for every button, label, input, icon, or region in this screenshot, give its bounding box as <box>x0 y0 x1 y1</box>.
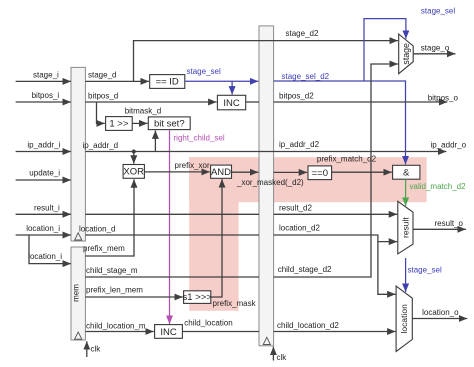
comparator ==ID <box>150 75 185 89</box>
wire prefix_xor <box>144 161 210 172</box>
incrementer INC child <box>155 325 183 339</box>
mux result <box>398 201 413 254</box>
svg-text:prefix_mem: prefix_mem <box>83 244 125 253</box>
wire location_o <box>412 308 467 319</box>
wire stage_o <box>413 44 455 54</box>
svg-text:stage_sel: stage_sel <box>421 7 455 16</box>
svg-text:result: result <box>400 217 410 238</box>
wire ip_addr_d down to XOR <box>133 152 135 164</box>
mux location <box>396 286 412 351</box>
svg-text:child_location: child_location <box>184 318 232 327</box>
svg-text:stage_sel_d2: stage_sel_d2 <box>282 72 330 81</box>
svg-text:clk: clk <box>91 345 102 354</box>
wire prefix_mask <box>211 179 257 308</box>
wire bitpos_i <box>16 91 71 102</box>
wire prefix_mem <box>83 179 134 256</box>
svg-text:location_d: location_d <box>79 225 115 234</box>
svg-text:child_location_m: child_location_m <box>86 322 146 331</box>
wire stage_sel_d2 (blue) <box>274 72 406 164</box>
wire location_i <box>16 224 71 235</box>
wire ip_addr_i <box>16 141 71 152</box>
svg-text:ip_addr_i: ip_addr_i <box>27 141 60 150</box>
svg-text:location_i: location_i <box>26 224 60 233</box>
svg-text:child_stage_d2: child_stage_d2 <box>278 265 332 274</box>
wire bitpos_d <box>85 91 216 102</box>
wire ip_addr_d <box>83 140 467 153</box>
svg-text:XOR: XOR <box>123 167 144 178</box>
svg-text:bitpos_i: bitpos_i <box>32 91 60 100</box>
svg-text:bitpos_d2: bitpos_d2 <box>279 92 314 101</box>
svg-text:prefix_match_d2: prefix_match_d2 <box>317 155 377 164</box>
svg-text:right_child_sel: right_child_sel <box>174 134 225 143</box>
svg-text:valid_match_d2: valid_match_d2 <box>410 182 467 191</box>
svg-text:&: & <box>403 168 410 179</box>
wire stage_d to d2 top route <box>134 29 399 81</box>
wire update_i <box>16 169 71 180</box>
svg-text:update_i: update_i <box>29 169 60 178</box>
wire prefix_match_d2 <box>317 155 392 173</box>
svg-text:s1 >>>: s1 >>> <box>183 292 213 303</box>
wire child_stage_m / child_stage_d2 <box>85 64 398 277</box>
wire result_o <box>413 219 466 230</box>
wire stage_sel (blue) <box>185 67 258 81</box>
svg-text:stage_d2: stage_d2 <box>286 29 319 38</box>
svg-text:mem: mem <box>72 284 81 302</box>
svg-text:stage_o: stage_o <box>421 44 450 53</box>
svg-text:stage_d: stage_d <box>88 71 116 80</box>
svg-text:AND: AND <box>211 167 231 178</box>
wire bitmask_d <box>125 106 161 123</box>
wire result_i <box>16 203 71 214</box>
svg-text:bitmask_d: bitmask_d <box>125 106 161 115</box>
svg-text:prefix_mask: prefix_mask <box>213 299 257 308</box>
svg-text:ip_addr_d: ip_addr_d <box>83 141 119 150</box>
svg-text:stage: stage <box>401 43 411 65</box>
svg-text:INC: INC <box>160 327 177 338</box>
svg-text:location_d2: location_d2 <box>279 223 320 232</box>
svg-text:bitpos_d: bitpos_d <box>88 91 118 100</box>
svg-text:_xor_masked(_d2): _xor_masked(_d2) <box>236 178 304 187</box>
comparator ==0 <box>308 166 332 180</box>
svg-text:child_stage_m: child_stage_m <box>86 266 138 275</box>
wire valid_match_d2 (green) <box>406 179 466 206</box>
wire stage_sel to location mux (blue) <box>406 258 442 292</box>
wire stage_d <box>85 71 149 82</box>
svg-text:bitpos_o: bitpos_o <box>428 93 459 102</box>
svg-text:ip_addr_d2: ip_addr_d2 <box>279 140 320 149</box>
svg-text:stage_sel: stage_sel <box>408 266 442 275</box>
svg-text:result_i: result_i <box>34 203 60 212</box>
wire child_location_m <box>85 322 153 332</box>
shifter 1 >> <box>106 117 133 131</box>
register bar1 (pipeline stage d) <box>71 67 85 241</box>
mux stage <box>399 34 414 74</box>
register bar mem <box>71 247 85 340</box>
and gate AND <box>211 165 232 178</box>
clk arrow mem <box>87 341 101 357</box>
wire stage_sel up to stage mux (blue) <box>364 7 455 82</box>
svg-text:==0: ==0 <box>312 168 328 179</box>
svg-text:== ID: == ID <box>156 77 179 88</box>
svg-text:child_location_d2: child_location_d2 <box>277 321 339 330</box>
highlight region vertical strip <box>189 157 238 311</box>
svg-text:bit set?: bit set? <box>154 118 185 129</box>
svg-text:prefix_xor: prefix_xor <box>175 161 210 170</box>
svg-text:location_i: location_i <box>28 252 62 261</box>
wire prefix_len_mem <box>85 286 182 297</box>
svg-text:prefix_len_mem: prefix_len_mem <box>86 286 143 295</box>
wire ip_addr_d up to bit set? <box>154 130 156 151</box>
wire location_d / location_d2 <box>79 223 396 294</box>
svg-text:clk: clk <box>277 353 288 362</box>
register bar2 (pipeline stage d2) <box>259 26 274 346</box>
wire right_child_sel (magenta) <box>170 130 225 324</box>
svg-text:1 >>: 1 >> <box>109 119 128 130</box>
wire _xor_masked to bar2 <box>232 172 305 187</box>
svg-text:location: location <box>399 304 409 334</box>
wire stage_sel branch to INC <box>231 81 233 94</box>
svg-text:result_o: result_o <box>435 219 464 228</box>
wire xor_masked_d2 to ==0 <box>274 171 308 173</box>
svg-text:stage_sel: stage_sel <box>187 67 221 76</box>
clk arrow bar2 <box>273 347 287 362</box>
wire stage_i <box>16 71 71 82</box>
highlight region horizontal band <box>189 157 426 202</box>
svg-text:ip_addr_o: ip_addr_o <box>431 141 467 150</box>
wire bitpos_d branch to shifter <box>97 102 105 123</box>
wire bitpos_d2 / bitpos_o <box>246 92 459 103</box>
shifter s1 >>> <box>183 291 213 304</box>
wire location_i branch to mem <box>28 235 71 264</box>
svg-text:INC: INC <box>223 98 240 109</box>
svg-text:stage_i: stage_i <box>33 71 59 80</box>
xor gate XOR <box>123 165 144 179</box>
and gate & <box>393 165 420 179</box>
incrementer INC <box>217 95 245 110</box>
svg-text:result_d2: result_d2 <box>279 204 312 213</box>
comparator bit set? <box>148 117 190 130</box>
wire location_d2 branch to result mux <box>378 241 397 243</box>
wire child_location / child_location_d2 <box>182 318 395 331</box>
svg-text:location_o: location_o <box>422 308 459 317</box>
wire result_d / result_d2 <box>85 204 397 215</box>
